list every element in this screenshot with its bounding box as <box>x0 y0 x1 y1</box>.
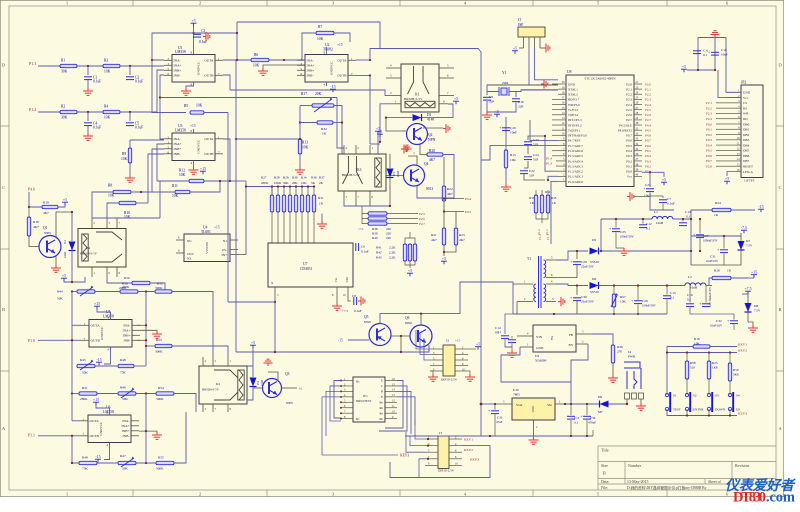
svg-text:INA-: INA- <box>174 59 181 63</box>
transistor Q6 8050 <box>410 325 432 347</box>
svg-text:DB3: DB3 <box>743 138 750 142</box>
wire <box>528 48 530 85</box>
svg-text:Revision: Revision <box>735 463 749 468</box>
capacitor C9 22P <box>483 96 491 98</box>
pin 31 P4.6/RST2 <box>634 129 642 131</box>
junction <box>151 59 153 61</box>
pin 2 <box>449 438 462 440</box>
capacitor C1 <box>87 66 89 75</box>
junction <box>369 74 371 76</box>
pin 1 <box>430 348 443 350</box>
svg-text:4K7: 4K7 <box>43 211 49 215</box>
junction <box>87 65 89 67</box>
power -15 <box>104 347 111 364</box>
capacitor C32 <box>730 320 738 322</box>
svg-text:LED-A: LED-A <box>743 170 754 174</box>
relay K4 HRS2H-S-5V <box>78 229 126 268</box>
svg-text:P0.3: P0.3 <box>645 159 651 163</box>
svg-text:INA+: INA+ <box>174 64 182 68</box>
svg-text:10uF/16V: 10uF/16V <box>710 324 723 328</box>
svg-text:INB-: INB- <box>123 434 130 438</box>
svg-text:22P: 22P <box>489 100 494 104</box>
pin 7 DB0 <box>727 123 741 125</box>
svg-text:510: 510 <box>690 366 695 370</box>
pin 8 <box>455 365 468 367</box>
power +5 <box>519 47 524 49</box>
power +15 pin8 <box>326 47 328 51</box>
svg-text:Y1: Y1 <box>502 71 507 75</box>
svg-text:Title: Title <box>601 448 609 453</box>
svg-text:P2.5: P2.5 <box>626 108 632 112</box>
svg-text:P1.1: P1.1 <box>545 229 549 235</box>
pin 13 E <box>385 396 397 398</box>
pin 4 <box>539 37 541 48</box>
svg-text:Date:: Date: <box>601 480 609 484</box>
svg-text:.com: .com <box>766 490 795 506</box>
wire <box>236 22 238 60</box>
svg-text:R2: R2 <box>61 105 65 109</box>
power +5 <box>443 252 445 256</box>
svg-text:+7.5: +7.5 <box>342 309 348 313</box>
wire <box>369 76 371 145</box>
svg-text:8050: 8050 <box>405 321 412 325</box>
svg-text:B: B <box>778 307 781 312</box>
pin 5 <box>546 259 556 261</box>
pin 16 WR/P3.6 <box>558 104 566 106</box>
junction <box>544 135 546 137</box>
wire <box>145 436 147 463</box>
pin 5 <box>576 333 592 335</box>
ground <box>332 303 342 310</box>
pin 10 INT/RxD/P3.0 <box>558 134 566 136</box>
pin 3 <box>495 403 512 405</box>
svg-text:P2.4: P2.4 <box>626 103 632 107</box>
wire <box>592 430 594 436</box>
wire <box>160 98 164 140</box>
junction <box>369 59 371 61</box>
ground <box>529 437 539 444</box>
pin 33 P0.6 <box>634 139 642 141</box>
transistor Q5 8550 <box>369 324 391 346</box>
junction <box>71 339 73 341</box>
wire mid bus <box>160 97 337 99</box>
svg-text:GNDVCC: GNDVCC <box>197 140 201 153</box>
svg-text:P0.0: P0.0 <box>706 122 712 126</box>
svg-text:0.1uF: 0.1uF <box>93 80 101 84</box>
svg-text:R29: R29 <box>283 176 289 180</box>
svg-text:P1.5/ADC5: P1.5/ADC5 <box>568 154 583 158</box>
ground <box>619 248 629 255</box>
svg-text:200K: 200K <box>261 181 269 185</box>
ladder resistor 4 <box>288 195 291 212</box>
svg-text:HRS2H-S-5V: HRS2H-S-5V <box>404 97 423 101</box>
capacitor C27 1000uF/35V <box>699 219 701 234</box>
wire <box>405 238 415 244</box>
svg-text:P4.5: P4.5 <box>645 128 651 132</box>
wire <box>137 324 146 326</box>
svg-text:P1.2: P1.2 <box>537 229 541 235</box>
ground <box>505 168 507 184</box>
pin 16 E <box>385 380 397 382</box>
svg-text:100uF/50V: 100uF/50V <box>642 304 657 308</box>
svg-text:LM358: LM358 <box>175 50 186 54</box>
net label P2.7 <box>387 223 418 225</box>
svg-text:C21: C21 <box>645 183 651 187</box>
svg-text:P0.0: P0.0 <box>626 170 632 174</box>
svg-text:DOWN: DOWN <box>715 408 726 412</box>
svg-text:HRS2H-S-5V: HRS2H-S-5V <box>80 252 98 256</box>
svg-text:R55: R55 <box>158 456 164 460</box>
svg-text:0.1uF: 0.1uF <box>354 309 362 313</box>
svg-text:9013: 9013 <box>426 187 433 191</box>
wire K3 bottom bus <box>344 200 390 206</box>
wire <box>120 70 164 112</box>
power arrow U8 GND <box>552 83 558 85</box>
svg-text:INB+: INB+ <box>123 334 131 338</box>
svg-text:C29: C29 <box>581 260 587 264</box>
svg-text:R21: R21 <box>431 233 437 237</box>
svg-text:270: 270 <box>617 350 622 354</box>
pin 7 <box>439 95 454 97</box>
svg-text:NPN: NPN <box>44 231 51 235</box>
svg-text:P2.6: P2.6 <box>706 165 712 169</box>
wire <box>77 65 103 67</box>
svg-text:51P: 51P <box>529 174 534 178</box>
svg-text:P2.1: P2.1 <box>645 87 651 91</box>
diode D4 4148 <box>252 366 254 377</box>
svg-text:P1.1/ADC1: P1.1/ADC1 <box>568 175 583 179</box>
svg-text:0.1: 0.1 <box>497 330 501 334</box>
svg-text:Q1: Q1 <box>43 226 48 230</box>
svg-text:NPN: NPN <box>428 138 436 142</box>
wire <box>552 129 558 131</box>
wire <box>300 105 312 107</box>
wire vin <box>505 346 512 348</box>
svg-text:P4.4: P4.4 <box>645 123 651 127</box>
ground <box>193 165 195 168</box>
svg-text:XTAL2: XTAL2 <box>568 93 578 97</box>
wire R7 loop <box>302 33 316 60</box>
svg-text:C3: C3 <box>201 29 205 33</box>
resistor R42 2.2K <box>408 244 411 261</box>
svg-text:K1: K1 <box>415 93 420 97</box>
wire <box>77 111 103 113</box>
svg-text:P4.6: P4.6 <box>645 134 651 138</box>
power -15 <box>104 443 110 460</box>
svg-text:P2.3: P2.3 <box>706 112 712 116</box>
svg-text:INA-: INA- <box>307 59 314 63</box>
svg-text:C34: C34 <box>590 416 596 420</box>
pin 11 DB4 <box>727 144 741 146</box>
svg-text:1K: 1K <box>727 269 732 273</box>
junction <box>427 438 429 440</box>
upper rail L1 <box>601 218 652 220</box>
svg-text:1000uF/35V: 1000uF/35V <box>703 239 719 243</box>
svg-text:R13: R13 <box>302 141 308 145</box>
wire collector <box>408 156 417 166</box>
capacitor C19 10uF <box>711 51 719 53</box>
svg-text:R46: R46 <box>120 386 126 390</box>
wire <box>313 212 315 243</box>
resistor R38 220 <box>362 206 368 214</box>
svg-text:P2.5: P2.5 <box>645 108 651 112</box>
svg-text:ISP: ISP <box>518 23 523 27</box>
ground <box>55 257 57 266</box>
junction <box>283 59 285 61</box>
wire EN loop <box>571 344 588 404</box>
resistor R54 <box>156 392 174 395</box>
pin 3 <box>341 390 353 392</box>
svg-text:R28: R28 <box>274 176 280 180</box>
pins K3 top <box>343 145 345 154</box>
svg-text:VIN: VIN <box>536 335 543 339</box>
net label KEY2 <box>667 352 737 354</box>
svg-text:LM358: LM358 <box>103 410 114 414</box>
pin 2 <box>576 343 588 345</box>
svg-text:DB6: DB6 <box>743 154 750 158</box>
resistor R22 4K7 <box>442 186 445 201</box>
svg-text:P0.4: P0.4 <box>626 149 632 153</box>
wire <box>552 124 558 126</box>
pin 1 GND <box>727 91 741 93</box>
pin 2 <box>528 37 530 48</box>
capacitor C12a <box>639 224 647 226</box>
pin 2 <box>341 385 353 387</box>
svg-text:10K: 10K <box>104 116 111 120</box>
svg-text:1K: 1K <box>530 201 535 205</box>
svg-text:C8: C8 <box>352 294 356 298</box>
svg-text:B: B <box>603 471 606 476</box>
svg-text:R36: R36 <box>617 345 623 349</box>
relay K1 HRS2H-S-5V <box>401 64 439 112</box>
svg-text:75K: 75K <box>82 467 88 471</box>
svg-text:-7.5: -7.5 <box>741 225 747 230</box>
power arrow <box>627 192 634 201</box>
resistor R3 <box>103 64 120 67</box>
ladder resistor 8 <box>312 195 315 212</box>
svg-text:OUTA: OUTA <box>204 59 214 63</box>
svg-text:INB-: INB- <box>124 339 131 343</box>
svg-text:R43: R43 <box>376 256 382 260</box>
svg-text:P0.6: P0.6 <box>645 144 651 148</box>
net label b1 <box>281 387 297 389</box>
capacitor C10 22P <box>512 98 520 100</box>
svg-text:10uH: 10uH <box>690 286 698 290</box>
svg-text:P0.3: P0.3 <box>626 154 632 158</box>
svg-text:FB: FB <box>569 333 574 337</box>
svg-text:10K: 10K <box>510 158 516 162</box>
svg-text:47uF: 47uF <box>496 420 503 424</box>
svg-text:C10: C10 <box>518 100 524 104</box>
svg-text:VSSVDD: VSSVDD <box>205 241 209 254</box>
resistor R32 1K <box>317 121 333 124</box>
svg-text:KEY2: KEY2 <box>464 448 473 452</box>
svg-text:P0.5: P0.5 <box>706 149 712 153</box>
resistor R11 <box>175 190 190 193</box>
svg-text:Vout: Vout <box>516 403 522 407</box>
pin 1 <box>523 37 525 48</box>
svg-text:C20: C20 <box>510 126 516 130</box>
svg-text:P4.6/RST2: P4.6/RST2 <box>618 128 632 132</box>
svg-text:GNDVCC: GNDVCC <box>330 62 334 75</box>
pin 13 INT1/P3.3 <box>558 119 566 121</box>
svg-text:R47: R47 <box>120 454 126 458</box>
svg-text:10uF: 10uF <box>721 53 728 57</box>
wire <box>129 140 131 148</box>
wire <box>400 336 402 352</box>
svg-text:+5: +5 <box>495 109 499 114</box>
long vertical wires <box>227 113 229 303</box>
ladder resistor 1 <box>270 195 273 212</box>
pin 18 XTAL2 <box>558 93 566 95</box>
pin 1 <box>393 103 401 105</box>
svg-text:N2: N2 <box>187 257 191 261</box>
junction <box>686 414 688 416</box>
resistor R35 1K <box>546 195 549 213</box>
svg-text:P2.5: P2.5 <box>419 212 425 216</box>
svg-text:0.1: 0.1 <box>703 53 707 57</box>
svg-text:TL081: TL081 <box>201 230 211 234</box>
svg-text:P1.0: P1.0 <box>28 339 35 343</box>
svg-text:+15: +15 <box>93 397 99 402</box>
wire cap rails <box>698 37 726 39</box>
pin 3 <box>230 254 246 256</box>
net label P2.6 <box>387 218 418 220</box>
wire <box>706 285 712 287</box>
svg-text:INB+: INB+ <box>122 429 130 433</box>
pin 3 <box>430 354 443 356</box>
wire <box>417 155 454 199</box>
junction <box>274 301 276 303</box>
ground <box>608 375 618 382</box>
svg-text:P2.2: P2.2 <box>645 93 651 97</box>
svg-text:Q3: Q3 <box>285 372 290 376</box>
svg-text:10K: 10K <box>104 70 111 74</box>
svg-text:STC12C5A60S2-40PIN: STC12C5A60S2-40PIN <box>585 77 617 81</box>
svg-text:N1: N1 <box>223 239 227 243</box>
svg-text:P2.2: P2.2 <box>706 106 712 110</box>
junction <box>245 185 247 187</box>
pin 6 <box>439 77 454 79</box>
wire R5 branch <box>152 60 186 113</box>
junction <box>341 121 343 123</box>
svg-text:INB-: INB- <box>307 74 314 78</box>
junction <box>420 312 422 314</box>
svg-text:OUT: OUT <box>187 252 195 256</box>
wire K4 bottom <box>107 277 132 283</box>
svg-text:+15: +15 <box>190 124 196 128</box>
svg-text:EN: EN <box>568 343 573 347</box>
resistor R19 <box>42 205 58 208</box>
power arrow <box>401 145 408 154</box>
svg-text:+5: +5 <box>662 177 666 182</box>
ground <box>507 350 517 357</box>
regulator U9 XL6009 <box>533 325 576 352</box>
pin 14 T0/P3.4 <box>558 114 566 116</box>
svg-text:+15: +15 <box>200 166 206 171</box>
svg-text:GNDVCC: GNDVCC <box>99 422 103 435</box>
wire base <box>253 387 262 389</box>
svg-text:7805: 7805 <box>513 393 520 397</box>
power arrow <box>443 124 450 133</box>
resistor R59 3K6 <box>729 353 731 364</box>
svg-text:30K: 30K <box>61 116 68 120</box>
pin 9 <box>430 370 443 372</box>
wire <box>295 212 297 243</box>
junction <box>613 284 615 286</box>
junction <box>313 185 315 187</box>
wire K1 pin2 to U1 OUTB <box>223 75 385 96</box>
svg-text:R33: R33 <box>529 196 535 200</box>
svg-text:Size: Size <box>601 463 608 468</box>
svg-text:P0.2: P0.2 <box>706 133 712 137</box>
power arrow <box>358 297 365 306</box>
svg-text:+5: +5 <box>62 273 66 278</box>
capacitor C15 <box>663 295 671 297</box>
svg-text:WR: WR <box>743 112 749 116</box>
svg-text:3K6: 3K6 <box>733 373 739 377</box>
wire MCU left stubs <box>521 89 558 91</box>
junction <box>576 284 578 286</box>
svg-text:INB+: INB+ <box>174 147 182 151</box>
wire <box>535 48 559 80</box>
ground <box>139 430 157 433</box>
svg-text:P2.7: P2.7 <box>626 118 632 122</box>
svg-text:OUTB: OUTB <box>337 74 347 78</box>
pin 19 XTAL1 <box>558 88 566 90</box>
resistor R16 10K <box>693 345 710 348</box>
pin 12 DB5 <box>727 149 741 151</box>
ground <box>430 371 433 374</box>
relay K3 HRS2H-S-5V <box>338 154 386 191</box>
svg-text:8550: 8550 <box>364 320 371 324</box>
svg-text:50K: 50K <box>283 181 289 185</box>
svg-text:Vdd: Vdd <box>345 277 349 283</box>
pin 5 <box>439 67 454 69</box>
wire <box>516 302 518 314</box>
svg-text:R26: R26 <box>714 269 720 273</box>
svg-text:C24: C24 <box>533 153 539 157</box>
wire <box>38 65 60 67</box>
pin 38 P0.1 <box>634 165 642 167</box>
wire collector <box>268 372 278 381</box>
svg-text:2.2K: 2.2K <box>389 251 396 255</box>
junction <box>159 96 161 98</box>
pin 6 <box>176 252 184 254</box>
svg-text:P1.3: P1.3 <box>29 61 36 66</box>
capacitor C16 <box>686 303 694 305</box>
svg-text:P2.3: P2.3 <box>626 98 632 102</box>
pin 5 WR <box>727 112 741 114</box>
svg-text:P4.5: P4.5 <box>465 210 471 214</box>
wire collector <box>423 127 443 129</box>
svg-text:+5: +5 <box>454 96 458 101</box>
svg-text:XL6009: XL6009 <box>535 359 547 363</box>
svg-text:+5: +5 <box>63 197 67 202</box>
svg-text:20K: 20K <box>315 92 322 96</box>
pin 1 <box>555 403 565 405</box>
ground <box>140 329 157 332</box>
svg-text:P0.4: P0.4 <box>645 154 651 158</box>
wire <box>228 301 275 303</box>
svg-text:R23: R23 <box>459 233 465 237</box>
wire <box>71 366 73 394</box>
pot R57 <box>612 294 615 307</box>
svg-text:OUTB: OUTB <box>204 152 214 156</box>
svg-text:P2.4: P2.4 <box>706 117 712 121</box>
pin 3 <box>546 301 556 303</box>
capacitor C31 <box>720 249 728 251</box>
